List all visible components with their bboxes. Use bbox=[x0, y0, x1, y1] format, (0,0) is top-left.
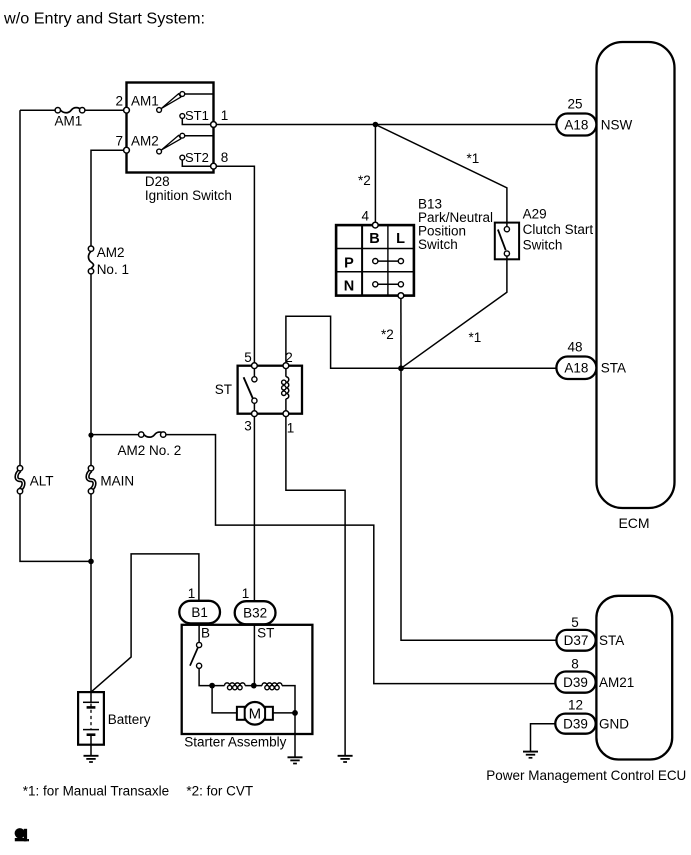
svg-text:*2: for CVT: *2: for CVT bbox=[186, 784, 253, 799]
svg-text:AM2 No. 2: AM2 No. 2 bbox=[118, 443, 182, 458]
svg-text:Battery: Battery bbox=[108, 712, 151, 727]
svg-text:*2: *2 bbox=[358, 173, 371, 188]
svg-text:A18: A18 bbox=[564, 117, 588, 132]
svg-text:8: 8 bbox=[571, 657, 579, 672]
svg-text:ST: ST bbox=[215, 382, 232, 397]
svg-text:2: 2 bbox=[285, 350, 293, 365]
svg-text:L: L bbox=[396, 231, 405, 247]
svg-text:AM1: AM1 bbox=[55, 114, 83, 129]
svg-text:8: 8 bbox=[221, 150, 229, 165]
svg-text:ST2: ST2 bbox=[185, 150, 209, 165]
svg-text:AM21: AM21 bbox=[599, 675, 634, 690]
svg-text:AM2: AM2 bbox=[97, 245, 125, 260]
svg-text:B: B bbox=[201, 625, 210, 640]
svg-text:AM2: AM2 bbox=[131, 134, 159, 149]
svg-text:N: N bbox=[344, 279, 354, 295]
svg-text:*1: *1 bbox=[467, 151, 480, 166]
svg-text:1: 1 bbox=[188, 586, 196, 601]
svg-text:ST1: ST1 bbox=[185, 108, 209, 123]
svg-text:Switch: Switch bbox=[418, 237, 458, 252]
svg-text:ALT: ALT bbox=[30, 473, 54, 488]
svg-text:*1: *1 bbox=[469, 330, 482, 345]
svg-text:1: 1 bbox=[221, 108, 229, 123]
svg-text:w/o Entry and Start System:: w/o Entry and Start System: bbox=[3, 11, 205, 28]
svg-text:Clutch Start: Clutch Start bbox=[523, 222, 594, 237]
svg-text:48: 48 bbox=[567, 340, 582, 355]
svg-text:1: 1 bbox=[242, 586, 250, 601]
svg-text:D37: D37 bbox=[564, 633, 589, 648]
svg-text:D28: D28 bbox=[145, 174, 170, 189]
svg-text:D39: D39 bbox=[563, 675, 588, 690]
svg-text:MAIN: MAIN bbox=[100, 473, 134, 488]
svg-text:Starter Assembly: Starter Assembly bbox=[184, 735, 286, 750]
svg-text:2: 2 bbox=[115, 94, 123, 109]
svg-text:5: 5 bbox=[244, 350, 252, 365]
svg-text:ST: ST bbox=[257, 625, 274, 640]
svg-text:1: 1 bbox=[287, 421, 295, 436]
svg-text:Power Management Control ECU: Power Management Control ECU bbox=[486, 767, 686, 783]
svg-text:STA: STA bbox=[601, 361, 626, 376]
svg-text:B: B bbox=[369, 231, 379, 247]
svg-text:A29: A29 bbox=[523, 207, 547, 222]
svg-text:4: 4 bbox=[361, 208, 369, 223]
svg-text:5: 5 bbox=[571, 615, 579, 630]
svg-text:M: M bbox=[249, 705, 262, 722]
svg-text:B1: B1 bbox=[191, 605, 208, 620]
svg-text:STA: STA bbox=[599, 633, 624, 648]
svg-text:No. 1: No. 1 bbox=[97, 262, 129, 277]
svg-text:D39: D39 bbox=[563, 716, 588, 731]
svg-text:*1: for Manual Transaxle: *1: for Manual Transaxle bbox=[23, 784, 169, 799]
svg-text:ECM: ECM bbox=[618, 515, 649, 531]
svg-text:AM1: AM1 bbox=[131, 94, 159, 109]
svg-text:B32: B32 bbox=[243, 606, 267, 621]
svg-text:3: 3 bbox=[244, 419, 252, 434]
svg-text:GND: GND bbox=[599, 716, 629, 731]
svg-text:25: 25 bbox=[567, 97, 582, 112]
svg-text:NSW: NSW bbox=[601, 117, 633, 132]
svg-text:A18: A18 bbox=[564, 361, 588, 376]
svg-text:*2: *2 bbox=[381, 327, 394, 342]
svg-text:12: 12 bbox=[568, 698, 583, 713]
svg-text:P: P bbox=[344, 255, 354, 271]
svg-text:Switch: Switch bbox=[523, 238, 563, 253]
svg-text:Ignition Switch: Ignition Switch bbox=[145, 188, 232, 203]
svg-text:7: 7 bbox=[115, 134, 123, 149]
